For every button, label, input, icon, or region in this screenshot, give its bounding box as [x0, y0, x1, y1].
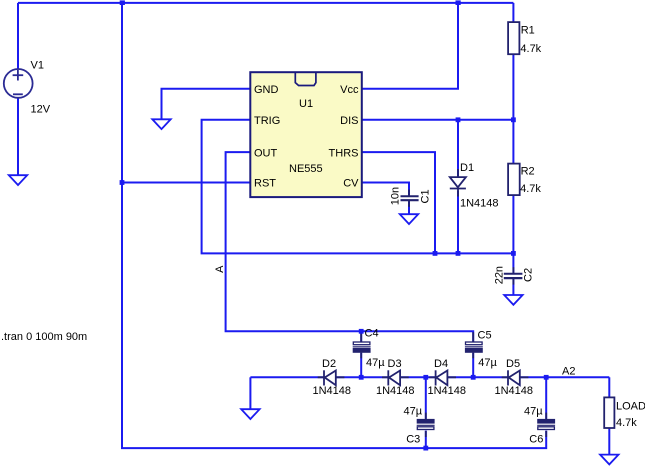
svg-text:1N4148: 1N4148: [460, 197, 499, 209]
svg-text:NE555: NE555: [289, 163, 323, 175]
svg-text:Vcc: Vcc: [340, 84, 359, 96]
svg-text:C6: C6: [529, 433, 543, 445]
svg-text:CV: CV: [343, 177, 359, 189]
svg-text:C2: C2: [523, 268, 535, 282]
svg-text:RST: RST: [254, 177, 276, 189]
svg-text:D5: D5: [506, 358, 520, 370]
svg-text:D2: D2: [322, 358, 336, 370]
svg-text:4.7k: 4.7k: [616, 417, 637, 429]
svg-text:A: A: [214, 265, 226, 273]
svg-text:C4: C4: [365, 328, 379, 340]
svg-text:THRS: THRS: [329, 147, 359, 159]
svg-text:4.7k: 4.7k: [520, 43, 541, 55]
svg-text:OUT: OUT: [254, 147, 278, 159]
svg-text:1N4148: 1N4148: [495, 385, 534, 397]
svg-text:47µ: 47µ: [478, 357, 497, 369]
svg-text:TRIG: TRIG: [254, 115, 280, 127]
svg-text:D3: D3: [388, 358, 402, 370]
svg-text:C1: C1: [419, 189, 431, 203]
svg-text:V1: V1: [31, 60, 44, 72]
svg-text:D4: D4: [434, 358, 448, 370]
svg-text:22n: 22n: [494, 266, 506, 284]
svg-text:C3: C3: [406, 433, 420, 445]
svg-text:1N4148: 1N4148: [428, 385, 467, 397]
svg-text:1N4148: 1N4148: [313, 385, 352, 397]
svg-text:1N4148: 1N4148: [376, 385, 415, 397]
svg-text:GND: GND: [254, 84, 279, 96]
svg-text:DIS: DIS: [340, 115, 358, 127]
svg-text:.tran 0 100m 90m: .tran 0 100m 90m: [1, 331, 87, 343]
svg-text:R1: R1: [521, 25, 535, 37]
svg-text:47µ: 47µ: [366, 357, 385, 369]
svg-text:U1: U1: [299, 98, 313, 110]
svg-text:12V: 12V: [31, 103, 51, 115]
svg-text:LOAD: LOAD: [616, 401, 645, 413]
svg-text:C5: C5: [478, 330, 492, 342]
svg-text:A2: A2: [562, 365, 575, 377]
svg-text:4.7k: 4.7k: [520, 183, 541, 195]
svg-text:47µ: 47µ: [524, 406, 543, 418]
svg-text:D1: D1: [460, 162, 474, 174]
svg-text:10n: 10n: [389, 187, 401, 205]
svg-text:R2: R2: [521, 165, 535, 177]
svg-text:47µ: 47µ: [404, 406, 423, 418]
